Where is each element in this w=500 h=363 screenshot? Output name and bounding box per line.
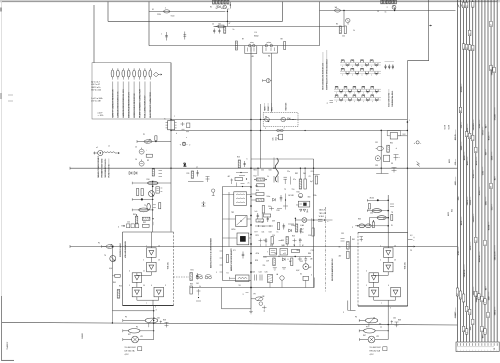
svg-text:R23: R23 <box>256 235 259 237</box>
legend arrow symbol <box>154 72 159 77</box>
bus hatch marks top <box>457 4 459 8</box>
svg-text:C44: C44 <box>259 272 262 274</box>
svg-text:22k: 22k <box>263 265 266 267</box>
svg-text:0,3: 0,3 <box>410 235 412 237</box>
svg-text:C59: C59 <box>266 261 269 263</box>
transistor Q102 <box>346 18 350 22</box>
svg-text:11: 11 <box>143 271 145 273</box>
component cluster rectifier network <box>390 133 397 139</box>
svg-text:1k: 1k <box>199 286 201 288</box>
svg-text:4: 4 <box>284 128 285 130</box>
wire stub block to column <box>174 276 190 278</box>
svg-text:C3: C3 <box>377 11 379 13</box>
wire center bus x251 <box>250 46 252 309</box>
svg-text:C25: C25 <box>127 222 130 224</box>
capacitor C54 in column <box>242 252 244 259</box>
potentiometer P1 <box>137 141 171 143</box>
svg-text:3: 3 <box>390 308 391 310</box>
svg-text:C41: C41 <box>196 283 199 285</box>
svg-text:4,5V: 4,5V <box>370 354 375 356</box>
svg-text:6: 6 <box>311 275 312 277</box>
svg-text:5: 5 <box>216 272 217 274</box>
svg-text:C36: C36 <box>370 213 373 215</box>
component marks right of choke <box>269 208 274 210</box>
wire stub dashes x222 lower <box>220 250 223 252</box>
resistor R43 <box>304 179 306 189</box>
svg-text:2: 2 <box>189 145 190 147</box>
wire vertical x407.4 <box>406 61 408 233</box>
svg-text:C2: C2 <box>212 24 214 26</box>
wire y159 link <box>251 158 314 160</box>
svg-text:R55: R55 <box>119 286 122 288</box>
svg-text:d3: d3 <box>460 110 462 112</box>
svg-text:4602: 4602 <box>448 212 450 216</box>
resistor R52 <box>135 216 138 223</box>
svg-text:1k: 1k <box>267 176 269 178</box>
electrolytic C32 <box>375 156 380 161</box>
svg-text:IC1: IC1 <box>233 250 236 252</box>
svg-text:22n: 22n <box>287 171 290 173</box>
resistor R75 <box>277 223 279 230</box>
wire x314 stub <box>313 278 315 288</box>
node ticks y119-y131 junction <box>181 123 185 125</box>
wire mains line y11.4 <box>149 10 225 12</box>
svg-text:9: 9 <box>494 71 496 72</box>
node ticks right <box>394 154 399 156</box>
op-amp B2 <box>384 262 394 272</box>
svg-text:1M2 3 = 1k: 1M2 3 = 1k <box>91 87 100 89</box>
svg-text:R33: R33 <box>190 284 193 286</box>
node tick left edge top <box>0 8 2 12</box>
capacitor C47 extra <box>267 217 269 223</box>
component cluster feed x237 y160 <box>238 160 240 168</box>
capacitor C102 <box>218 29 220 34</box>
svg-text:P6: P6 <box>355 317 357 319</box>
node dots center lattice <box>257 168 258 169</box>
wire feed chain x152.7 <box>152 182 154 233</box>
resistor R41 pair <box>257 178 265 181</box>
svg-text:S1: S1 <box>152 9 154 11</box>
svg-text:R31: R31 <box>191 270 194 272</box>
svg-text:2: 2 <box>380 260 381 262</box>
svg-text:2: 2 <box>352 227 353 229</box>
transistor Q103 <box>392 5 396 9</box>
svg-text:91: 91 <box>469 136 471 138</box>
svg-text:+: + <box>463 349 464 351</box>
svg-text:= 4V7: = 4V7 <box>98 112 103 114</box>
resistor R25 pair <box>136 189 138 196</box>
svg-text:R68: R68 <box>398 320 401 322</box>
wire speaker line y45.6 <box>149 45 320 47</box>
connector pairs center bottom <box>196 276 199 279</box>
wire U link center bottom <box>221 288 223 309</box>
capacitor C22 electrolytic <box>139 161 144 166</box>
svg-text:1n: 1n <box>228 9 230 11</box>
fuse F2 <box>335 9 341 12</box>
svg-text:7: 7 <box>381 303 382 305</box>
svg-text:4k7: 4k7 <box>228 176 231 178</box>
bus label boxes <box>462 2 465 8</box>
lamp LP2 <box>368 336 375 343</box>
svg-text:+- 10%: +- 10% <box>98 115 104 117</box>
bus bottom connector box <box>456 342 499 352</box>
svg-text:100: 100 <box>261 170 264 172</box>
component cluster left of center <box>191 171 193 178</box>
resistor R42 <box>299 179 302 189</box>
symbol K mark <box>417 162 420 167</box>
resistor R47 extra <box>295 224 297 232</box>
svg-text:470: 470 <box>299 240 302 242</box>
svg-text:63V 4 = 10k: 63V 4 = 10k <box>91 90 101 92</box>
svg-text:+: + <box>457 349 458 351</box>
potentiometer P8 on center bus <box>251 298 255 300</box>
pilot circle P8b <box>259 302 263 306</box>
svg-text:4k7: 4k7 <box>221 8 224 10</box>
svg-text:C7: C7 <box>196 167 198 169</box>
node marks cluster F <box>285 194 287 210</box>
node marks near motor <box>295 256 296 257</box>
capacitor C52 <box>305 258 308 260</box>
svg-text:TBA 641: TBA 641 <box>403 262 406 269</box>
wire bus y130.5 <box>171 130 407 132</box>
svg-text:RW 262 mA: RW 262 mA <box>370 350 381 353</box>
wire feed x381 <box>380 130 382 174</box>
svg-text:c8: c8 <box>472 48 474 50</box>
svg-text:q: q <box>463 330 465 331</box>
svg-text:LP1: LP1 <box>140 336 143 338</box>
svg-text:+: + <box>497 349 498 351</box>
node dashes on y130.5 <box>182 128 185 130</box>
potentiometer P4 bottom left <box>123 330 129 332</box>
svg-text:3: 3 <box>243 294 244 296</box>
svg-text:10k: 10k <box>262 232 265 234</box>
resistor R22 <box>146 154 152 157</box>
IC block left amplifier <box>123 231 174 233</box>
wire vertical feed x94 <box>93 5 95 63</box>
component box center bottom right <box>303 276 309 280</box>
svg-text:LW 262 mA: LW 262 mA <box>125 350 136 353</box>
capacitor C48 extra <box>300 228 302 234</box>
svg-text:C52: C52 <box>300 261 303 263</box>
electrolytic C24 oval <box>147 203 150 210</box>
transistor Q12 <box>281 117 286 122</box>
resistor R54 input row <box>143 224 150 227</box>
potentiometer P2 left <box>106 245 114 249</box>
svg-text:C61: C61 <box>311 171 314 173</box>
svg-text:2: 2 <box>387 7 388 9</box>
wire stubs center lattice <box>257 168 259 176</box>
diode D51 <box>282 258 285 261</box>
resistor R55 <box>117 290 120 299</box>
component row REC cluster <box>270 249 277 256</box>
svg-text:n2: n2 <box>485 302 487 304</box>
svg-text:P2: P2 <box>98 243 100 245</box>
capacitor C31 <box>377 146 383 150</box>
svg-text:10k: 10k <box>268 206 271 208</box>
node marks right of meter line <box>318 218 323 220</box>
relay K1 box <box>236 275 250 282</box>
svg-text:C58: C58 <box>269 232 272 234</box>
potentiometer P6 bottom right <box>359 320 365 322</box>
dashed box tape switch <box>263 113 298 127</box>
component box K2 <box>156 187 160 193</box>
capacitor C56 <box>283 224 285 230</box>
svg-text:1n: 1n <box>277 232 279 234</box>
svg-text:R12: R12 <box>254 176 257 178</box>
resistor R107 on y26.4 <box>215 26 218 28</box>
legend symbol row <box>111 70 114 77</box>
wire outer left loop right block <box>350 236 352 311</box>
component phi right of chain <box>212 189 215 192</box>
svg-text:P3: P3 <box>125 317 127 319</box>
component column left of right block <box>347 242 350 250</box>
svg-text:56k: 56k <box>255 186 258 188</box>
svg-text:T8: T8 <box>391 212 393 214</box>
svg-text:B4601: B4601 <box>82 333 84 338</box>
wire stubs column to bus <box>247 194 252 196</box>
svg-text:1: 1 <box>161 34 162 36</box>
component box bottom left <box>138 347 142 351</box>
IC array IC-A pins <box>340 62 381 64</box>
svg-text:P7: P7 <box>366 327 368 329</box>
wire stub y225.8 right <box>358 225 388 227</box>
svg-text:R28: R28 <box>255 260 258 262</box>
svg-text:+: + <box>490 349 491 351</box>
svg-text:e: e <box>186 137 187 139</box>
component cluster above center column <box>236 183 238 187</box>
svg-text:5V 4602 Δ12: 5V 4602 Δ12 <box>370 346 381 349</box>
resistor R109 on speaker line <box>235 41 237 50</box>
wire right block internals <box>387 232 389 248</box>
fuse F1 <box>164 10 170 13</box>
ground marks center <box>273 267 277 269</box>
wire center column left x222.5 <box>222 187 224 281</box>
resistor R62b small <box>368 204 370 209</box>
svg-text:5V 4601 Δ12: 5V 4601 Δ12 <box>125 346 136 349</box>
component column right of left block <box>190 273 193 281</box>
wire fuse to Q102 <box>343 11 345 27</box>
svg-text:R14: R14 <box>256 190 259 192</box>
svg-text:S2: S2 <box>300 274 302 276</box>
svg-text:4μ7: 4μ7 <box>310 181 313 183</box>
capacitor hatched C51 <box>268 275 273 283</box>
svg-text:330: 330 <box>308 197 311 199</box>
node marks right of feed <box>390 203 394 205</box>
svg-text:b: b <box>176 133 177 135</box>
svg-text:12: 12 <box>463 5 465 7</box>
svg-text:L1: L1 <box>108 146 110 148</box>
svg-text:C60: C60 <box>269 170 272 172</box>
svg-text:C35: C35 <box>341 233 344 235</box>
wire center bottom y287.5 <box>190 287 314 289</box>
svg-text:C9: C9 <box>309 176 311 178</box>
potentiometer P3 bottom left <box>123 320 146 322</box>
wire top block right edge <box>282 2 284 22</box>
svg-text:R45: R45 <box>113 282 116 284</box>
op-amp B4 <box>369 287 379 297</box>
scan edge band top <box>0 0 500 2</box>
connector block CN2 <box>279 134 283 140</box>
svg-text:T1: T1 <box>347 24 349 26</box>
resistor R73 <box>291 258 293 266</box>
svg-text:+: + <box>481 349 482 351</box>
label marks left of right block <box>341 238 345 240</box>
wire bus y323.8 <box>2 322 457 325</box>
svg-text:800Ω: 800Ω <box>254 36 259 38</box>
svg-text:R77: R77 <box>255 232 258 234</box>
choke L41 wavy <box>275 158 278 182</box>
svg-text:C45: C45 <box>265 272 268 274</box>
diode D101 <box>218 6 220 8</box>
capacitor group C-A <box>385 65 387 67</box>
resistor R110 on speaker line <box>284 42 286 50</box>
node dots left top cluster <box>152 218 153 219</box>
svg-text:R26: R26 <box>292 236 295 238</box>
svg-text:R41: R41 <box>133 214 136 216</box>
svg-text:R13: R13 <box>237 157 240 159</box>
svg-text:+: + <box>478 349 479 351</box>
svg-text:100: 100 <box>342 36 345 38</box>
component marks below P8 <box>262 307 267 309</box>
wire stub y210.6 right <box>367 210 388 212</box>
svg-text:D5: D5 <box>278 256 280 258</box>
connector pair on y130.5 <box>277 129 280 131</box>
svg-text:1: 1 <box>146 246 147 248</box>
resistor R24 oval on y183 <box>148 181 158 185</box>
output stub arrow right <box>408 246 412 248</box>
svg-text:R82: R82 <box>295 173 298 175</box>
svg-text:TBA 641: TBA 641 <box>167 262 170 269</box>
svg-text:+: + <box>487 349 488 351</box>
svg-text:n15: n15 <box>283 253 286 255</box>
svg-text:87: 87 <box>379 324 381 326</box>
component cluster above transformer <box>235 178 243 181</box>
node ticks left margin <box>8 94 13 96</box>
svg-text:14: 14 <box>394 246 396 248</box>
svg-text:b2: b2 <box>466 47 468 49</box>
wire left block output down <box>153 306 155 340</box>
wire y246.5 through left area <box>112 246 114 248</box>
lamp LP1 <box>132 336 139 343</box>
svg-text:47n: 47n <box>293 179 296 181</box>
resistor R46 extra <box>256 219 264 222</box>
wire x229 feed <box>228 192 230 247</box>
wire stub cluster C <box>299 168 301 179</box>
resistor R48 extra <box>312 228 314 236</box>
node junction x407.4 <box>407 121 409 123</box>
svg-text:T9: T9 <box>284 189 286 191</box>
svg-text:6: 6 <box>247 159 248 161</box>
svg-text:1: 1 <box>380 246 381 248</box>
wire top border <box>2 1 497 3</box>
svg-text:+: + <box>469 349 470 351</box>
component box X1 <box>298 201 310 207</box>
component triangles below X1 <box>300 209 302 211</box>
component marks y324 left cluster <box>153 323 154 324</box>
component cluster D x315 <box>315 176 317 184</box>
transistor Q21 <box>149 191 155 197</box>
svg-text:R80: R80 <box>308 253 311 255</box>
svg-text:C19: C19 <box>311 250 314 252</box>
svg-text:a4: a4 <box>491 24 493 26</box>
op-amp A5 <box>154 287 164 297</box>
svg-text:4601: 4601 <box>449 159 451 163</box>
diode D11 <box>288 118 290 120</box>
component box bottom right <box>383 347 387 351</box>
svg-text:R18: R18 <box>277 210 280 212</box>
op-amp A1 <box>147 248 157 257</box>
svg-text:C6: C6 <box>135 159 137 161</box>
svg-text:C11: C11 <box>296 205 299 207</box>
op-amp B3 <box>369 273 379 283</box>
connector LS right pair <box>265 44 268 47</box>
svg-text:C43: C43 <box>252 272 255 274</box>
bead oval B1 input row <box>359 224 365 228</box>
svg-text:47k 2 = 47: 47k 2 = 47 <box>91 84 100 86</box>
wire vertical x428.7 <box>428 0 430 61</box>
svg-text:W 804: W 804 <box>319 216 324 218</box>
svg-text:g1: g1 <box>476 240 478 242</box>
svg-text:+: + <box>466 349 467 351</box>
wire left border <box>0 2 2 361</box>
svg-text:R61: R61 <box>352 239 355 241</box>
bus harness 13 vertical wires <box>457 0 459 342</box>
component marks y324 right cluster <box>388 324 389 325</box>
svg-text:x2: x2 <box>488 315 490 317</box>
resistor R51 oval on y209.9 <box>139 208 149 212</box>
section divider dash-dot x325.5 <box>325 207 327 292</box>
wire left block bottom L <box>112 310 153 312</box>
meter M1 lamp style <box>302 218 307 223</box>
svg-text:p7: p7 <box>469 312 471 314</box>
wire top block bottom edge <box>108 20 283 22</box>
node y246 left end tick <box>69 245 71 248</box>
svg-text:C16: C16 <box>308 235 311 237</box>
svg-text:h4: h4 <box>457 294 459 296</box>
svg-text:7: 7 <box>146 303 147 305</box>
wire vertical feed x149 <box>148 2 150 46</box>
svg-text:1 nF 5 = 100k: 1 nF 5 = 100k <box>91 98 102 100</box>
svg-text:R11: R11 <box>187 173 190 175</box>
node top bank junction <box>229 2 231 9</box>
IC array IC-B pins <box>334 88 381 90</box>
mains plug tick <box>93 152 97 154</box>
svg-text:9: 9 <box>343 312 344 314</box>
bead oval B2 input row <box>365 224 371 228</box>
resistor R23 <box>152 169 154 176</box>
svg-text:51: 51 <box>466 5 468 7</box>
svg-text:R3: R3 <box>219 24 221 26</box>
svg-text:B250: B250 <box>232 229 236 231</box>
svg-text:K1: K1 <box>227 273 229 275</box>
svg-text:3: 3 <box>156 310 157 312</box>
transistor Q31 dark oval <box>377 216 386 220</box>
svg-text:+: + <box>475 349 476 351</box>
svg-text:1n5: 1n5 <box>255 211 258 213</box>
svg-text:R8: R8 <box>281 39 283 41</box>
svg-text:R57: R57 <box>128 334 131 336</box>
wire bus y168.2 <box>70 167 457 169</box>
wire left block internals <box>150 232 152 248</box>
svg-text:R67: R67 <box>363 335 366 337</box>
svg-text:R58: R58 <box>163 320 166 322</box>
svg-text:2k2: 2k2 <box>275 253 278 255</box>
svg-text:LP2: LP2 <box>376 336 379 338</box>
capacitor C104 above speaker line <box>184 32 186 40</box>
svg-text:2200μ: 2200μ <box>291 225 296 227</box>
svg-text:T10: T10 <box>292 189 295 191</box>
wire feed right block top <box>387 195 389 232</box>
